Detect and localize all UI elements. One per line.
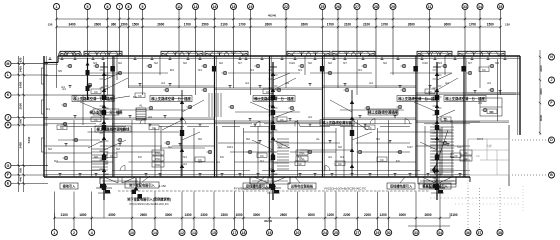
- dimension tick: [86, 18, 88, 20]
- socket: [427, 174, 429, 177]
- wire (diagonal branch): [352, 132, 372, 140]
- socket: [281, 57, 283, 60]
- svg-text:N2: N2: [278, 145, 282, 149]
- grid axis circle 33 (top): [462, 4, 468, 10]
- svg-text:A4: A4: [245, 81, 249, 85]
- svg-text:2300: 2300: [221, 213, 228, 217]
- socket: [149, 124, 151, 127]
- socket: [221, 174, 223, 177]
- bay window block x=161: [161, 51, 203, 56]
- grid axis circle 17 (bottom): [232, 230, 238, 236]
- wire: axis line to building: [11, 174, 48, 176]
- wire: axis line down to building: [464, 10, 466, 57]
- door swing triangles: [254, 177, 268, 183]
- wire: axis line to bottom circle: [234, 218, 236, 230]
- grid axis circle 16 (top): [212, 4, 218, 10]
- grid axis circle 19 (top): [248, 4, 254, 10]
- partition x=161: [160, 126, 162, 177]
- svg-text:40240: 40240: [264, 219, 273, 223]
- svg-text:N2: N2: [328, 61, 332, 65]
- svg-text:2400: 2400: [19, 142, 23, 149]
- partition x=258: [257, 126, 259, 177]
- svg-text:A4: A4: [328, 155, 332, 159]
- ceiling lamp (66,158): [64, 156, 67, 159]
- door swing arc: [140, 119, 145, 124]
- stacked label box: [460, 150, 472, 155]
- socket: [257, 174, 259, 177]
- dimension tick: [388, 217, 390, 219]
- svg-text:2600: 2600: [140, 213, 147, 217]
- wire tick: [433, 69, 437, 71]
- wire tick: [269, 87, 273, 89]
- grid axis circle D (right): [549, 137, 555, 143]
- dashed extension lines: [467, 175, 469, 188]
- svg-text:2200: 2200: [343, 213, 350, 217]
- socket: [499, 91, 501, 94]
- wire tick: [274, 107, 278, 109]
- wire tick: [269, 177, 273, 179]
- socket: [169, 57, 171, 60]
- wire tick: [274, 74, 278, 76]
- grid axis circle 13 (bottom): [191, 230, 197, 236]
- wire tick: [100, 78, 104, 80]
- wire: axis line to bottom circle: [439, 218, 441, 230]
- wire tick: [100, 114, 104, 116]
- wall y=162: [336, 161, 416, 163]
- svg-text:A4: A4: [183, 162, 187, 166]
- wall y=143: [356, 142, 410, 144]
- svg-text:1: 1: [56, 5, 58, 9]
- svg-text:大样: 大样: [486, 144, 492, 148]
- dimension tick: [268, 217, 270, 219]
- wire tick: [433, 186, 437, 188]
- entry porch x=250: [249, 177, 251, 184]
- corridor line: [44, 170, 100, 172]
- building outer wall: top (double line): [58, 55, 520, 57]
- mini label box (62,128): [57, 125, 67, 130]
- svg-text:31: 31: [428, 5, 432, 9]
- entry steps below right stair: [424, 180, 456, 182]
- svg-text:29: 29: [376, 231, 380, 235]
- svg-text:2300: 2300: [200, 213, 207, 217]
- ceiling lamp (167,90): [165, 88, 168, 91]
- svg-text:3000: 3000: [253, 213, 260, 217]
- bay window block x=60: [60, 51, 80, 56]
- ceiling lamp (150,66): [148, 64, 151, 67]
- party wall x=214.5: [214, 56, 216, 177]
- wire: dotted leader to bottom circle: [499, 188, 501, 230]
- wire tick: [100, 177, 104, 179]
- svg-text:KN1: KN1: [299, 157, 305, 161]
- ceiling lamp (120,140): [118, 138, 121, 141]
- socket: [92, 57, 94, 60]
- svg-text:AL: AL: [316, 137, 320, 141]
- wire tick: [269, 150, 273, 152]
- wire: axis line down to building: [56, 10, 58, 57]
- svg-text:2400: 2400: [539, 65, 543, 72]
- dimension tick: [376, 217, 378, 219]
- wall y=122: [450, 121, 480, 123]
- wire run: [390, 72, 452, 74]
- annotation box (row A) x=444: [444, 96, 486, 102]
- mini label box (446,120): [441, 117, 451, 122]
- svg-text:3600: 3600: [444, 22, 451, 26]
- wire: axis line above dim line: [439, 192, 441, 219]
- wire tick: [105, 173, 109, 175]
- partition x=357.5: [357, 120, 359, 177]
- socket: [239, 57, 241, 60]
- tick: [539, 56, 541, 58]
- partition x=217: [216, 126, 218, 177]
- wire tick: [433, 123, 437, 125]
- bay window block x=458: [458, 51, 505, 56]
- wire run: [228, 72, 300, 74]
- entry riser dense marks x=104: [100, 184, 106, 188]
- svg-text:A4: A4: [308, 115, 312, 119]
- svg-text:9: 9: [142, 5, 144, 9]
- grid axis circle 30 (bottom): [386, 230, 392, 236]
- socket: [381, 57, 383, 60]
- grid axis circle 27 (bottom): [355, 230, 361, 236]
- socket: [74, 116, 76, 119]
- socket: [362, 57, 364, 60]
- tick: [23, 164, 25, 166]
- wire run: [58, 139, 100, 141]
- socket: [245, 57, 247, 60]
- svg-text:1000: 1000: [235, 213, 242, 217]
- dimension tick: [428, 18, 430, 20]
- wall y=132: [244, 131, 337, 133]
- svg-text:KC: KC: [266, 90, 270, 94]
- electrical riser x=437: [436, 62, 438, 200]
- ceiling lamp (310,152): [308, 150, 311, 153]
- socket: [294, 57, 296, 60]
- wire (diagonal branch): [420, 142, 437, 150]
- wall y=126.5: [250, 126, 269, 128]
- grid axis circle 7 (top): [117, 4, 123, 10]
- tick: [539, 102, 541, 104]
- socket: [59, 174, 61, 177]
- wire: axis line to bottom circle: [377, 218, 379, 230]
- stacked label box: [152, 150, 164, 155]
- grid axis circle 25 (bottom): [333, 230, 339, 236]
- svg-text:28: 28: [374, 5, 378, 9]
- socket: [331, 174, 333, 177]
- wall y=143: [276, 142, 340, 144]
- wire (diagonal branch): [104, 140, 126, 150]
- dimension tick: [285, 18, 287, 20]
- socket: [261, 57, 263, 60]
- wire tick: [269, 96, 273, 98]
- wire: [273, 110, 295, 118]
- svg-text:母线槽电缆引入: 母线槽电缆引入: [390, 184, 413, 189]
- left wall pilaster: [42, 100, 45, 114]
- svg-text:37: 37: [478, 231, 482, 235]
- wire: axis line to bottom circle: [73, 218, 75, 230]
- tick: [18, 74, 20, 76]
- svg-text:29: 29: [391, 5, 395, 9]
- svg-text:1400: 1400: [19, 81, 23, 88]
- svg-text:A4: A4: [487, 81, 491, 85]
- socket: [164, 116, 166, 119]
- svg-text:A4: A4: [198, 160, 202, 164]
- wire tick: [105, 162, 109, 164]
- wire: [352, 120, 368, 130]
- ceiling lamp (168,143): [166, 141, 169, 144]
- partition x=107.5: [107, 56, 109, 95]
- left wall pilaster: [42, 68, 45, 84]
- svg-text:1500: 1500: [120, 22, 127, 26]
- socket: [399, 86, 401, 89]
- wire: axis line above dim line: [181, 192, 183, 219]
- KC box on party wall x=464: [461, 66, 465, 72]
- wire: axis line to building: [11, 74, 48, 76]
- svg-text:KN1: KN1: [155, 151, 161, 155]
- socket: [79, 174, 81, 177]
- svg-text:A4: A4: [148, 115, 152, 119]
- wall y=126.5: [340, 126, 370, 128]
- socket: [89, 86, 91, 89]
- svg-text:35: 35: [499, 5, 503, 9]
- wire run: [88, 72, 168, 74]
- svg-text:24: 24: [323, 231, 327, 235]
- svg-text:KN1: KN1: [155, 163, 161, 167]
- svg-text:2500: 2500: [19, 103, 23, 110]
- wall y=86: [129, 85, 215, 87]
- stair arrow line: [435, 130, 448, 168]
- svg-text:1300: 1300: [184, 213, 191, 217]
- dotted vertical: [522, 186, 524, 212]
- wire: [88, 140, 104, 148]
- callout 总等电位联结板: [288, 183, 316, 189]
- partition x=160: [159, 56, 161, 75]
- wall y=152: [116, 151, 160, 153]
- wall y=162: [129, 161, 215, 163]
- svg-text:440: 440: [19, 176, 23, 181]
- svg-text:总等电位联结板: 总等电位联结板: [291, 184, 314, 189]
- building outer wall: bottom (double line): [44, 176, 470, 178]
- grid axis circle 11 (top): [176, 4, 182, 10]
- top dimension line lower: [57, 26, 501, 28]
- socket: [447, 144, 449, 147]
- svg-text:N2: N2: [183, 61, 187, 65]
- wall y=126.5: [187, 126, 209, 128]
- wire tick: [269, 159, 273, 161]
- tick: [539, 132, 541, 134]
- wire tick: [100, 150, 104, 152]
- tick: [18, 116, 20, 118]
- wire tick: [100, 123, 104, 125]
- dimension tick: [499, 18, 501, 20]
- svg-text:38: 38: [498, 231, 502, 235]
- svg-text:630: 630: [19, 57, 23, 62]
- window swing arcs: [88, 51, 97, 56]
- wire: [253, 98, 273, 100]
- wire: axis line down to building: [119, 10, 121, 57]
- svg-text:N2: N2: [168, 145, 172, 149]
- annotation box x=368,y=109: [368, 109, 398, 115]
- svg-text:KC: KC: [298, 162, 302, 166]
- svg-text:3000: 3000: [539, 114, 543, 121]
- wire (diagonal branch): [80, 102, 104, 112]
- wire tick: [433, 105, 437, 107]
- socket: [474, 91, 476, 94]
- grid axis circle E (left): [5, 181, 11, 187]
- corridor line: [264, 123, 412, 125]
- partition x=377.5: [377, 128, 379, 177]
- wire tick: [438, 151, 442, 153]
- svg-text:900: 900: [19, 118, 23, 123]
- partition x=179: [178, 56, 180, 88]
- svg-text:M1: M1: [170, 68, 174, 72]
- svg-text:地下室配电箱引入(贯穿建筑物): 地下室配电箱引入(贯穿建筑物): [127, 197, 171, 202]
- mini label box (430,92): [425, 89, 435, 94]
- svg-text:2600: 2600: [301, 22, 308, 26]
- svg-text:1700: 1700: [238, 22, 245, 26]
- mini label box (300,164): [295, 161, 305, 166]
- socket: [254, 124, 256, 127]
- ceiling lamp (225,73): [223, 71, 226, 74]
- svg-text:2100: 2100: [220, 22, 227, 26]
- svg-text:KC: KC: [260, 154, 264, 158]
- wire run: [120, 109, 185, 111]
- electrical riser x=182: [181, 90, 183, 176]
- svg-text:梯上支路线空调一分一插座: 梯上支路线空调一分一插座: [445, 96, 485, 101]
- leader lines from callouts: [142, 176, 150, 182]
- svg-text:N2: N2: [308, 61, 312, 65]
- svg-text:N2: N2: [246, 137, 250, 141]
- svg-text:130: 130: [505, 22, 510, 26]
- wire: axis line to bottom circle: [335, 218, 337, 230]
- svg-text:27: 27: [356, 231, 360, 235]
- wire tick: [274, 118, 278, 120]
- wire tick: [438, 85, 442, 87]
- grid axis circle 33 (bottom): [413, 230, 419, 236]
- svg-text:梯上支路线空调暗敷线: 梯上支路线空调暗敷线: [97, 127, 131, 132]
- wire: [437, 73, 452, 80]
- grid axis circle M (left): [5, 61, 11, 67]
- svg-text:J: J: [551, 78, 553, 82]
- svg-text:36: 36: [466, 231, 470, 235]
- wire tick: [105, 118, 109, 120]
- wire: axis line to bottom circle: [269, 218, 271, 230]
- window swing arcs: [58, 51, 67, 56]
- wire tick: [433, 78, 437, 80]
- dimension tick: [233, 217, 235, 219]
- KC box on party wall x=416: [413, 66, 417, 72]
- grid axis circle 2 (bottom): [71, 230, 77, 236]
- svg-text:VV22(3×10/3×6)/SC50-WC,FC: VV22(3×10/3×6)/SC50-WC,FC: [324, 186, 367, 190]
- partition x=452: [451, 120, 453, 177]
- tick: [18, 124, 20, 126]
- svg-text:梯上支路线空调一分一插座: 梯上支路线空调一分一插座: [151, 96, 191, 101]
- dimension tick: [118, 18, 120, 20]
- socket: [249, 119, 251, 122]
- wire: axis line to bottom circle: [91, 218, 93, 230]
- svg-text:KC: KC: [482, 68, 486, 72]
- svg-text:AL: AL: [139, 104, 143, 108]
- wire tick: [100, 96, 104, 98]
- tick: [23, 116, 25, 118]
- svg-text:KN1: KN1: [299, 151, 305, 155]
- tick: [18, 94, 20, 96]
- socket: [49, 57, 51, 60]
- wire: axis line above dim line: [193, 192, 195, 219]
- wire tick: [438, 96, 442, 98]
- svg-text:2100: 2100: [363, 22, 370, 26]
- door swing arc: [120, 166, 125, 171]
- partition x=440: [439, 128, 441, 177]
- partition x=243.5: [243, 128, 245, 177]
- wire: axis line to building: [11, 117, 48, 119]
- svg-text:25: 25: [334, 231, 338, 235]
- wire: axis line above dim line: [243, 192, 245, 219]
- wall y=160: [430, 159, 470, 161]
- wire: axis line to building: [11, 94, 48, 96]
- tick: [23, 94, 25, 96]
- partition x=91.7: [91, 128, 93, 177]
- wire (diagonal branch): [182, 100, 204, 112]
- dimension tick: [127, 18, 129, 20]
- wire: axis line above dim line: [234, 192, 236, 219]
- bay window block x=417: [417, 51, 452, 56]
- dimension tick: [464, 18, 466, 20]
- dimension tick: [479, 18, 481, 20]
- svg-text:N2: N2: [198, 137, 202, 141]
- door swing arc: [181, 119, 186, 124]
- wire tick: [433, 114, 437, 116]
- grid axis circle 1 (top): [54, 4, 60, 10]
- wire tick: [105, 151, 109, 153]
- svg-text:2300: 2300: [539, 88, 543, 95]
- svg-text:N17: N17: [407, 145, 413, 149]
- ceiling lamp (65,105): [63, 103, 66, 106]
- wire: axis line above dim line: [324, 192, 326, 219]
- svg-text:KC: KC: [94, 90, 98, 94]
- dimension tick: [375, 18, 377, 20]
- svg-text:12: 12: [180, 231, 184, 235]
- dimension tick: [178, 18, 180, 20]
- stacked label box: [460, 156, 472, 161]
- wire: axis line down to building: [375, 10, 377, 57]
- party wall x=464: [463, 56, 465, 177]
- ceiling lamp (76,140): [74, 138, 77, 141]
- stacked label box: [152, 156, 164, 161]
- svg-text:N1: N1: [358, 68, 362, 72]
- wire tick: [100, 69, 104, 71]
- wall y=93: [416, 92, 520, 94]
- svg-text:6: 6: [107, 5, 109, 9]
- socket: [454, 57, 456, 60]
- wire: axis line to bottom circle: [154, 218, 156, 230]
- wire: axis line down to building: [479, 10, 481, 57]
- svg-text:33: 33: [414, 231, 418, 235]
- dimension tick: [55, 18, 57, 20]
- svg-text:2100: 2100: [61, 213, 68, 217]
- wire tick: [269, 132, 273, 134]
- wire: dotted leader to bottom circle: [479, 188, 481, 230]
- wire tick: [105, 140, 109, 142]
- wall y=146: [44, 145, 90, 147]
- wire tick: [105, 107, 109, 109]
- svg-text:1: 1: [53, 231, 55, 235]
- grid axis circle J (right): [549, 77, 555, 83]
- svg-text:4500: 4500: [108, 213, 115, 217]
- staircase treads: [430, 126, 454, 128]
- dimension tick: [324, 217, 326, 219]
- KC box on party wall x=322.5: [320, 66, 324, 72]
- tick: [539, 79, 541, 81]
